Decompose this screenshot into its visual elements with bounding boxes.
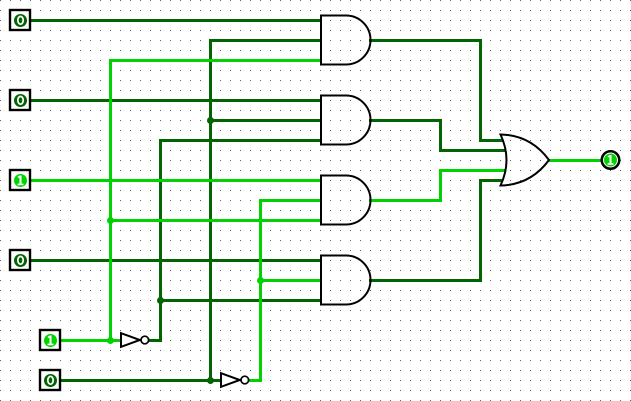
- wire AND1 output to corner (y=40): [369, 39, 482, 42]
- wire junction to AND4 input2 (y=280) bright: [259, 279, 322, 282]
- wire AND2 output to corner (y=120): [369, 119, 442, 122]
- wire OR output to output pin (y=160) bright: [549, 159, 604, 162]
- NOT gate 1 (inverter): [121, 333, 140, 347]
- wire junction to AND3 input3 (y=220) bright: [109, 219, 322, 222]
- wire junction to AND4 input3 (y=300): [159, 299, 322, 302]
- wire NOT2 output to corner (y=380) bright: [249, 379, 262, 382]
- wire corner to OR input1 (y=140): [479, 139, 503, 142]
- AND gate 1: [321, 16, 371, 65]
- input pin 5 select (value 1): [40, 330, 60, 350]
- output pin (value 1): [602, 151, 620, 169]
- wire AND4 output to corner (y=280): [369, 279, 482, 282]
- wire pin3 to AND3 input1 (y=180) bright: [29, 179, 322, 182]
- junction at (210,380): [207, 377, 214, 384]
- input pin 2 (value 0): [10, 90, 30, 110]
- wire vertical x=480 AND4 out rise: [479, 179, 482, 282]
- wire pin6 to NOT2 input (y=380): [59, 379, 222, 382]
- OR gate: [501, 135, 550, 186]
- wire corner to OR input4 (y=180): [479, 179, 503, 182]
- wire vertical x=480 AND1 out drop: [479, 39, 482, 142]
- wire node A corner to AND1 input2 (y=40): [209, 39, 322, 42]
- junction at (110,220): [107, 217, 114, 224]
- AND gate 3: [321, 176, 371, 225]
- wire pin2 to AND2 input1 (y=100): [29, 99, 322, 102]
- wire vertical x=440 AND2 out drop: [439, 119, 442, 152]
- wire corner to AND3 input2 (y=200) bright: [259, 199, 322, 202]
- input pin 1 (value 0): [10, 10, 30, 30]
- wire vertical x=210 select line: [209, 39, 212, 382]
- junction at (160,300): [157, 297, 164, 304]
- AND gate 4: [321, 256, 371, 305]
- wire pin1 to AND1 input1 (y=20): [29, 19, 322, 22]
- junction at (260,280): [257, 277, 264, 284]
- NOT gate 2 (inverter): [221, 373, 240, 387]
- junction at (110,340): [107, 337, 114, 344]
- wire vertical x=440 AND3 out rise bright: [439, 169, 442, 202]
- wire corner to OR input3 (y=170) bright: [439, 169, 505, 172]
- wire corner to AND1 input3 (y=60) bright: [109, 59, 322, 62]
- input pin 6 select (value 0): [40, 370, 60, 390]
- wire pin5 to NOT1 input (y=340) bright: [59, 339, 122, 342]
- wire NOT1 output to corner (y=340): [149, 339, 162, 342]
- input pin 4 (value 0): [10, 250, 30, 270]
- wire vertical x=110 select line bright: [109, 59, 112, 342]
- NOT gate 1 bubble: [141, 336, 149, 344]
- NOT gate 2 bubble: [241, 376, 249, 384]
- wire pin4 to AND4 input1 (y=260): [29, 259, 322, 262]
- input pin 3 (value 1): [10, 170, 30, 190]
- wire vertical x=160 inverted select: [159, 139, 162, 342]
- wire corner to OR input2 (y=150): [439, 149, 505, 152]
- wire vertical x=260 inverted select bright: [259, 199, 262, 382]
- junction at (210,120): [207, 117, 214, 124]
- wire AND3 output to corner (y=200) bright: [369, 199, 442, 202]
- wire corner to AND2 input3 (y=140): [159, 139, 322, 142]
- wire junction to AND2 input2 (y=120): [209, 119, 322, 122]
- AND gate 2: [321, 96, 371, 145]
